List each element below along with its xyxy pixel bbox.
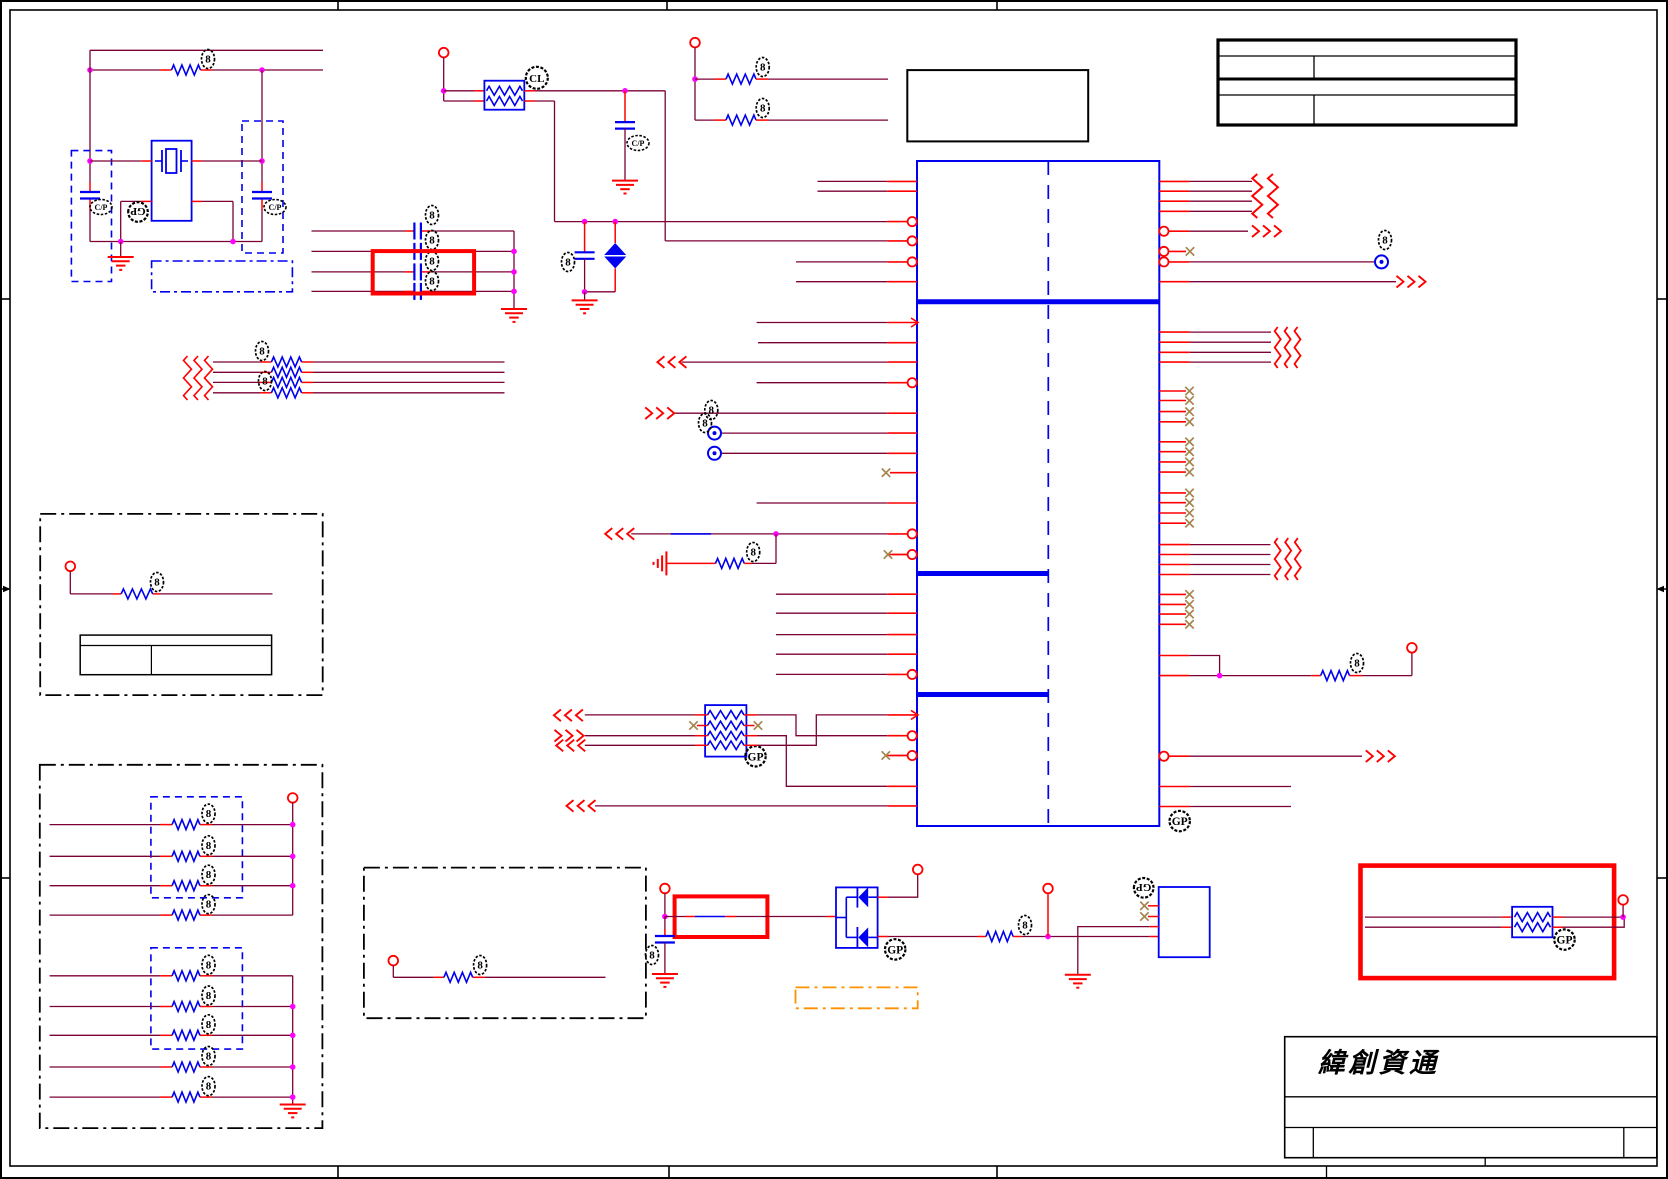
label GP crystal [128,202,148,222]
U1 pin L1 [887,180,917,182]
wire VCC2 stem [694,47,696,120]
resistor R5 [271,388,301,398]
wire CM1 in2 [1365,926,1512,928]
resistor R3 [271,367,301,377]
U1 pin L20 [887,634,917,636]
crystal Y1 symbol [155,149,188,173]
svg-text:8: 8 [206,990,212,1002]
IC U1 divider y=573.5 [917,571,1048,576]
wire L11 [673,412,887,414]
wire L21 [776,653,887,655]
wire L27 [595,805,887,807]
resistor R2 label [256,342,269,361]
resistor R11 label [202,804,215,823]
terminal circle pullup [1043,884,1053,894]
junction at (120.7,241.5) [118,239,124,245]
junction at (514,271.9) [511,269,517,275]
wire L8 [758,342,887,344]
choke L1 winding 1 [487,86,523,95]
terminal circle net R9 [1407,643,1417,653]
choke L1 body [484,81,524,110]
wire choke in 1 [444,90,485,92]
capacitor C6 [414,283,421,300]
capacitor C9 label [646,946,659,965]
terminal circle D1 top [913,865,923,875]
wire net A horizontal [555,221,888,223]
wire cap line 4 right [431,290,514,292]
RP1 row3 lead [695,735,708,737]
capacitor C5 leads [405,271,431,273]
ground J1 [1065,975,1091,988]
resistor R8 wire to junction [744,534,776,564]
svg-text:8: 8 [206,869,212,881]
wire array2 line2 right [212,1006,293,1008]
highlight red box right [1361,866,1615,979]
J1 pin nc1 [1148,905,1159,907]
wire CM1 out2 [1553,917,1625,927]
wire RP1 row4 to pin L23 [757,715,887,745]
U1 pin R8 [1159,281,1189,283]
testpoint R7 [1375,255,1388,268]
border tick bottom x=669 [668,1166,670,1178]
wire R1 [1189,180,1252,182]
wire CM1 stem [1622,905,1624,917]
resistor R19 leads [160,1096,212,1098]
resistor R15 leads [160,975,212,977]
U1 pin R5 (inv) [1159,227,1189,236]
capacitor C2 dashed box [242,121,283,253]
U1 pin Rnc y=400.5 [1159,400,1186,402]
wire L18 [776,593,887,595]
U1 pin L4 (inv) [887,236,917,245]
off-page connector >>> R8 [1397,276,1426,288]
U1 pin R15 [1159,564,1190,566]
wire array1 line3 left [50,885,160,887]
svg-text:8: 8 [429,276,435,288]
U1 pin R17 [1159,655,1189,657]
no-connect y=421.8 [1185,418,1193,426]
choke L1 label CL [526,67,548,89]
svg-text:8: 8 [709,405,715,417]
svg-text:8: 8 [702,418,708,430]
svg-text:8: 8 [429,210,435,222]
junction at (90,70) [87,67,93,73]
wire choke out 2 [524,101,554,222]
border tick bottom x=997 [996,1166,998,1178]
wire R2 [1189,190,1252,192]
junction at (625,90.8) [622,88,628,94]
capacitor C5 label [426,252,439,271]
border tick right y=878 [1657,877,1667,879]
resistor R1 label [202,50,215,69]
revision table column divider upper [1313,56,1315,79]
crystal Y1 body [152,141,192,221]
no-connect y=472.1 [1185,468,1193,476]
wire R3 [1189,200,1252,202]
border tick bottom x=338 [337,1166,339,1178]
resistor R13 [172,881,200,891]
testpoint L12 [708,427,721,440]
title block outline [1285,1037,1657,1158]
svg-text:8: 8 [206,959,212,971]
wire P2 stem [393,965,433,977]
U1 pin R21 [1159,806,1190,808]
RP2 dashed box [151,797,243,898]
svg-text:GP: GP [748,751,764,763]
wire L22 [776,673,887,675]
wire array1 line4 left [50,914,160,916]
RP3 dashed box [151,948,243,1049]
junction at (292.7,1006.5) [290,1004,296,1010]
U1 pin R11 [1159,351,1190,353]
off-page squiggle column 2 [194,356,202,400]
notes box [907,70,1088,141]
highlight red box mid [373,251,474,293]
capacitor C9 lead [664,917,666,937]
wire RP1 row1 in [585,714,695,716]
wire R20 right [485,976,606,978]
resistor R19 [172,1092,200,1102]
wire R8n [1189,281,1396,283]
IC U1 center dashed line [1047,161,1049,826]
U1 pin L21 [887,653,917,655]
resistor R6 label [756,58,769,77]
wire bus line 1 left [213,361,260,363]
title block bottom tick [1326,1166,1328,1178]
ground C7 [612,181,638,194]
svg-text:8: 8 [206,899,212,911]
title block vline x=1485 [1484,1158,1486,1166]
ground crystal [108,257,134,270]
junction at (1623.1,917.1) [1620,914,1626,920]
U1 pin Rnc y=472.1 [1159,471,1186,473]
svg-text:8: 8 [1382,235,1388,247]
wire R21n [1190,806,1291,808]
svg-text:8: 8 [206,1081,212,1093]
resistor R9 [1321,671,1350,681]
capacitor C2 [252,192,272,199]
wire array1 line1 left [50,824,160,826]
no-connect y=492.9 [1185,489,1193,497]
terminal circle CM1 [1618,895,1628,905]
U1 pin R7 (inv) [1159,257,1189,266]
svg-text:CL: CL [529,73,544,85]
off-page connector >>> L11 [645,407,674,419]
resistor R19 label [202,1077,215,1096]
wire bottom rail y=241.5 [90,241,262,243]
wire array1 line2 left [50,855,160,857]
wire crystal right pin [192,160,262,162]
junction at (262,161) [259,158,265,164]
U1 pin R10 [1159,341,1190,343]
no-connect J1-2 [1140,912,1148,920]
wire L12 label [699,414,712,433]
wire array2 line5 right [212,1096,293,1098]
terminal circle P1 [66,562,76,572]
junction at (292.7,1067) [290,1064,296,1070]
title block line y=1097 [1285,1096,1657,1098]
capacitor C4 leads [405,250,431,252]
no-connect y=461.9 [1185,458,1193,466]
svg-text:C/P: C/P [632,139,645,148]
wire bus line 2 right [313,371,505,373]
border arrow right [1657,586,1668,592]
wire choke in 2 [444,100,485,102]
resistor R18 leads [160,1066,212,1068]
svg-text:8: 8 [760,103,766,115]
no-connect L25 [882,751,908,759]
J1 pin nc2 [1148,916,1159,918]
wire array2 line3 right [212,1034,293,1036]
junction at (233,241.5) [230,239,236,245]
RP1 row3 lead right [744,735,757,737]
svg-text:8: 8 [206,840,212,852]
junction at (514,251.4) [511,249,517,255]
wire CM1 out1 [1553,916,1624,918]
svg-text:GP: GP [1557,935,1573,947]
U1 pin Rnc y=461.9 [1159,461,1186,463]
testpoint L13 [708,447,721,460]
U1 pin L22 (inv) [887,670,917,679]
label GP RP1 [745,746,765,766]
wire R21 to J1 [1022,936,1159,938]
revision table box [1218,40,1516,125]
off-page connector <<< RP1 row1 [554,710,583,722]
diode pair D1 body [836,887,878,948]
svg-text:8: 8 [262,376,268,388]
resistor R3 leads [260,371,313,373]
junction at (292.7,885.7) [290,883,296,889]
highlight red box fuse [675,896,768,937]
no-connect RP1 row2 right [754,721,762,729]
capacitor C7 [615,122,635,129]
wire bus line 3 right [313,381,505,383]
U1 pin L16 (inv) [887,529,917,538]
wire L6 [796,281,887,283]
resistor pack RP1 element 1 [708,711,745,720]
wire R14n [1190,554,1271,556]
terminal circle P2 [389,956,399,966]
wire bus line 4 left [213,392,260,394]
capacitor C1 [80,192,100,199]
svg-text:8: 8 [206,1051,212,1063]
U1 pin L10 (inv) [887,378,917,387]
bus squiggle group2 col2 [1285,327,1291,368]
junction at (292.7,856.3) [290,854,296,860]
bus squiggle group1 col1 [1252,174,1262,218]
wire gnd stem TVS [584,292,586,301]
wire R4 [1189,210,1252,212]
no-connect R6 [1186,247,1194,255]
svg-text:8: 8 [206,808,212,820]
resistor R21 label [1019,916,1032,935]
wire cap line 1 right [431,230,514,232]
wire R10n [1190,341,1271,343]
U1 pin Rnc y=624.3 [1159,623,1186,625]
resistor R1 leads [160,69,212,71]
U1 pin L18 [887,593,917,595]
resistor pack RP1 element 2 [708,721,745,730]
terminal circle VIN [439,48,449,58]
terminal circle array1 [288,793,298,803]
resistor R12 label [202,836,215,855]
wire array2 bus [292,976,294,1104]
U1 pin Rnc y=523.2 [1159,522,1186,524]
wire array2 line1 left [50,975,160,977]
no-connect y=594.4 [1185,590,1193,598]
ground array2 [280,1105,306,1118]
U1 pin R19 (inv) [1159,752,1189,761]
wire L20 [776,634,887,636]
off-page squiggle column 1 [184,356,192,400]
U1 pin R9 [1159,331,1190,333]
resistor R14 leads [160,914,212,916]
wire bus line 4 right [313,392,505,394]
svg-text:C/P: C/P [269,203,282,212]
revision table column divider lower [1313,95,1315,124]
choke L2 winding 2 [1515,923,1551,932]
dash-dot box 2 [40,765,323,1128]
capacitor C6 leads [405,290,431,292]
junction at (776,533.9) [773,531,779,537]
wire R7 left [695,119,726,121]
U1 pin R3 [1159,200,1189,202]
bus squiggle group3 col3 [1295,538,1301,580]
no-connect L17 [884,550,908,558]
wire L9 [682,361,888,363]
wire array1 line1 right [212,824,293,826]
wire C7 to gnd [624,129,626,181]
no-connect y=614.1 [1185,610,1193,618]
resistor R14 [172,910,200,920]
resistor R8 lead left [666,562,715,564]
ground TVS [572,300,598,313]
choke L2 winding 1 [1515,913,1551,922]
resistor R17 leads [160,1034,212,1036]
U1 pin Rnc y=604.4 [1159,603,1186,605]
wire P1 stem [70,571,113,594]
wire RP1 row4 in [585,744,695,746]
wire VBAT stem [664,893,666,916]
svg-text:GP: GP [130,205,146,217]
RP1 row2 lead right [744,725,755,727]
wire J1 gnd [1078,927,1159,975]
diode TVS D2 lead bottom [614,269,616,292]
resistor R7 label [756,99,769,118]
wire C9 gnd [664,943,666,975]
wire fuse net [665,916,836,918]
wire R12n [1190,361,1271,363]
resistor R12 [172,851,200,861]
U1 pin L7 (input arrow) [887,318,918,327]
terminal circle VBAT [660,884,670,894]
U1 pin L19 [887,612,917,614]
U1 pin R16 [1159,574,1190,576]
U1 pin L2 [887,190,917,192]
resistor R10 label [151,573,164,592]
wire R13n [1190,544,1271,546]
U1 pin Rnc y=421.8 [1159,421,1186,423]
no-connect y=502.7 [1185,499,1193,507]
bus squiggle group3 col1 [1275,538,1281,580]
revision table row line 1 [1219,55,1515,57]
wire RP1 row1 to pin L24 [757,715,887,736]
no-connect y=400.5 [1185,396,1193,404]
capacitor C3 label [426,206,439,225]
junction at (1048,936.5) [1045,934,1051,940]
resistor pack RP1 body [705,705,746,757]
capacitor C4 label [426,231,439,250]
capacitor C7 label C/P [627,136,649,151]
border tick top x=338 [337,1,339,10]
U1 pin L11 [887,412,917,414]
wire RP1 row3 to pin L26 [757,736,887,787]
wire L15 [757,502,888,504]
U1 pin L12 [887,432,917,434]
wire bus line 2 left [213,371,260,373]
border tick left y=299 [1,298,10,300]
label GP D1 [885,939,905,959]
resistor R14 label [202,895,215,914]
wire L7 [757,322,888,324]
resistor R18 [172,1062,200,1072]
RP1 row4 lead right [744,744,757,746]
U1 pin Rnc y=502.7 [1159,502,1186,504]
bus squiggle group3 col2 [1285,538,1291,580]
wire cap line 2 left [312,250,406,252]
wire L10 [757,382,888,384]
title block company name 緯創資通 [1317,1048,1440,1078]
resistor R8 label [747,543,760,562]
resistor R2 [271,357,301,367]
resistor R20 leads [434,976,485,978]
capacitor C1 leads [89,182,91,210]
junction at (90,161) [87,158,93,164]
wire L4 [665,240,887,242]
resistor R16 leads [160,1006,212,1008]
off-page connector >>> RP1 row3 [555,730,584,742]
U1 pin R18 [1159,675,1189,677]
wire R9 to terminal [1362,653,1412,676]
svg-text:8: 8 [429,235,435,247]
no-connect y=523.2 [1185,519,1193,527]
table small box1 [80,635,271,675]
resistor R1 [172,65,201,75]
off-page squiggle column 3 [205,356,213,400]
wire choke out 1 [524,90,665,92]
no-connect RP1 row2 left [689,721,697,729]
no-connect J1-1 [1140,902,1148,910]
resistor R4 [271,377,301,387]
wire L12 [721,432,887,434]
wire C8 down [584,259,586,292]
svg-text:C/P: C/P [95,203,108,212]
wire net to pin22 vertical [664,91,666,241]
capacitor C8 label [562,253,575,272]
off-page connector left <<< L16 [605,528,634,540]
U1 pin R13 [1159,544,1190,546]
resistor R16 label [202,986,215,1005]
svg-text:8: 8 [760,62,766,74]
wire array1 line3 right [212,885,293,887]
resistor pack RP1 element 3 [708,731,745,740]
ground cap bus [501,309,527,322]
wire array2 line3 left [50,1034,160,1036]
RP1 row1 lead [695,714,708,716]
svg-text:8: 8 [649,950,655,962]
wire R15n [1190,564,1271,566]
resistor R15 [172,971,200,981]
